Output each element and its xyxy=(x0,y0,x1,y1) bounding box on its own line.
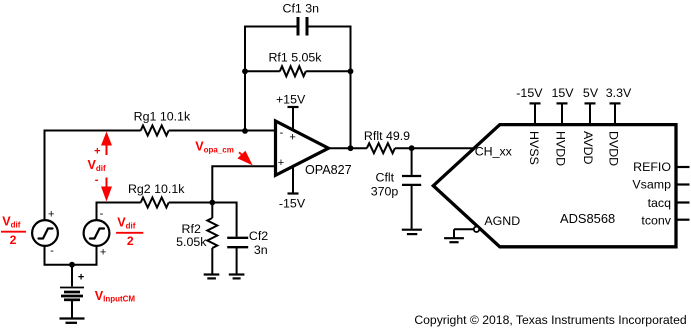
junction dot: non-inverting node xyxy=(209,200,215,206)
resistor Rflt xyxy=(367,143,395,153)
wire: Cf1 right to feedback right riser top xyxy=(307,27,351,149)
svg-text:-: - xyxy=(100,208,104,220)
IC ADS8568 outline xyxy=(433,125,676,247)
svg-text:370p: 370p xyxy=(371,184,399,198)
svg-text:Rf1 5.05k: Rf1 5.05k xyxy=(268,50,322,64)
pin HVDD stub xyxy=(561,103,563,124)
arrow Vopa_cm (red) xyxy=(239,152,243,155)
capacitor Cf2 xyxy=(227,237,248,239)
source VS1 xyxy=(32,220,58,246)
pin tacq xyxy=(676,201,690,203)
wire: Rf1 row xyxy=(245,70,280,72)
wire: node to Cf2 xyxy=(212,203,236,237)
svg-text:-: - xyxy=(95,174,99,186)
pin AGND wire xyxy=(454,228,475,230)
junction dot: battery node xyxy=(69,262,75,268)
arrow Vdif up (red) xyxy=(101,132,112,146)
svg-text:2: 2 xyxy=(127,234,134,248)
svg-text:3n: 3n xyxy=(254,243,268,257)
svg-text:+: + xyxy=(48,209,54,221)
pin AVDD stub xyxy=(589,103,591,124)
wire: non-inverting riser to op-amp xyxy=(212,166,276,202)
svg-text:Rg1 10.1k: Rg1 10.1k xyxy=(134,109,191,123)
svg-text:DVDD: DVDD xyxy=(606,131,620,166)
svg-text:15V: 15V xyxy=(551,86,574,100)
wire: bottom rail xyxy=(44,264,98,266)
supply -15V xyxy=(292,166,294,194)
ground: Cf2 xyxy=(229,273,245,275)
resistor Rf2 xyxy=(211,203,213,219)
svg-text:Cf1 3n: Cf1 3n xyxy=(283,2,320,16)
capacitor Cflt xyxy=(411,148,413,175)
wire: Rg1 to inverting input xyxy=(169,130,276,132)
svg-text:tconv: tconv xyxy=(641,213,671,227)
svg-text:Copyright © 2018, Texas Instru: Copyright © 2018, Texas Instruments Inco… xyxy=(414,313,686,327)
svg-text:REFIO: REFIO xyxy=(633,160,671,174)
resistor Rg2 xyxy=(141,198,169,208)
junction dot: output/feedback xyxy=(348,145,354,151)
junction dot: feedback right top xyxy=(348,68,354,74)
junction dot: feedback left top xyxy=(242,68,248,74)
wire: source VS2 top to Rg2 left xyxy=(97,203,141,221)
source VS2 xyxy=(84,220,110,246)
svg-text:+: + xyxy=(94,145,100,157)
wire: op-amp output xyxy=(329,147,367,149)
svg-text:-15V: -15V xyxy=(279,196,306,210)
svg-text:tacq: tacq xyxy=(648,196,672,210)
svg-text:AVDD: AVDD xyxy=(581,131,595,165)
svg-text:3.3V: 3.3V xyxy=(606,86,632,100)
svg-text:+: + xyxy=(289,132,295,144)
resistor Rg1 xyxy=(141,126,169,136)
svg-text:HVSS: HVSS xyxy=(527,131,541,165)
svg-text:OPA827: OPA827 xyxy=(305,163,352,177)
AGND pin circle xyxy=(474,227,479,232)
svg-text:5.05k: 5.05k xyxy=(176,235,207,249)
svg-text:ADS8568: ADS8568 xyxy=(560,211,615,226)
junction dot: inverting input node xyxy=(242,128,248,134)
battery VInputCM xyxy=(71,265,73,287)
svg-text:2: 2 xyxy=(10,233,17,247)
svg-text:HVDD: HVDD xyxy=(554,131,568,166)
svg-text:+15V: +15V xyxy=(276,92,306,106)
junction dot: Cflt node xyxy=(409,145,415,151)
pin DVDD stub xyxy=(614,103,616,124)
capacitor Cf1 xyxy=(297,17,300,36)
wire: feedback left riser xyxy=(245,27,298,131)
wire: Rflt to ADC CH_xx xyxy=(395,147,476,149)
resistor Rf1 xyxy=(280,66,306,76)
svg-text:Vsamp: Vsamp xyxy=(632,177,671,191)
svg-text:Rflt 49.9: Rflt 49.9 xyxy=(364,129,410,143)
wire: VS2 bottom xyxy=(96,246,98,265)
pin tconv xyxy=(676,219,690,221)
op-amp OPA827 xyxy=(276,121,329,175)
svg-text:CH_xx: CH_xx xyxy=(475,144,513,158)
pin REFIO xyxy=(676,166,690,168)
pin HVSS stub xyxy=(534,103,536,124)
svg-text:+: + xyxy=(278,157,284,169)
arrow Vdif down (red) xyxy=(106,178,108,189)
svg-text:5V: 5V xyxy=(583,86,599,100)
svg-text:-15V: -15V xyxy=(516,86,543,100)
svg-text:Rg2 10.1k: Rg2 10.1k xyxy=(128,182,185,196)
svg-text:AGND: AGND xyxy=(484,214,520,228)
ground: Rf2 xyxy=(204,273,220,275)
pin Vsamp xyxy=(676,183,690,185)
svg-text:Cf2: Cf2 xyxy=(249,229,268,243)
ground: battery xyxy=(60,317,85,319)
svg-text:-: - xyxy=(280,127,284,139)
svg-text:-: - xyxy=(50,245,54,257)
supply +15V xyxy=(292,107,294,131)
wire: Rg2 to non-inverting node xyxy=(169,202,213,204)
svg-text:Cflt: Cflt xyxy=(376,171,395,185)
ground: Cflt xyxy=(402,229,422,231)
wire: VS1 bottom xyxy=(44,246,46,265)
svg-text:+: + xyxy=(78,272,84,284)
ground: AGND xyxy=(444,237,464,239)
svg-text:+: + xyxy=(100,247,106,259)
wire: source VS1 top to Rg1 left xyxy=(45,131,141,221)
svg-text:Rf2: Rf2 xyxy=(182,222,201,236)
